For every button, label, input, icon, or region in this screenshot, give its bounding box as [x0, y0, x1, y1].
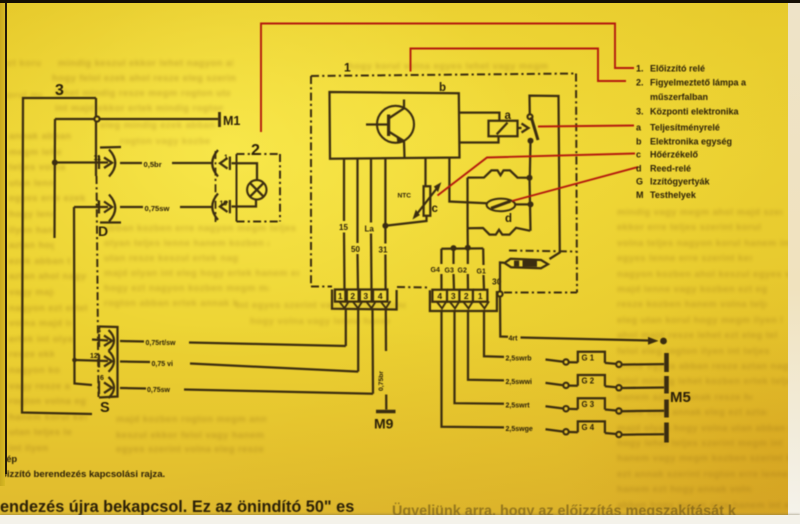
splice circle [616, 362, 621, 367]
wire [546, 406, 564, 408]
wire 0,75sw (pin 6) [120, 387, 146, 390]
svg-text:15: 15 [339, 223, 348, 232]
junction dot [52, 160, 58, 166]
svg-text:D: D [98, 223, 108, 239]
ground bar M5 (4) [664, 423, 669, 443]
wire capsule to bus [515, 203, 530, 205]
svg-text:M9: M9 [374, 416, 394, 432]
svg-text:2: 2 [464, 291, 469, 301]
electronics unit box b [330, 92, 460, 159]
svg-text:4: 4 [97, 328, 101, 335]
terminal strip boxes 1 2 3 4 [335, 290, 346, 302]
svg-text:Reed-relé: Reed-relé [650, 164, 691, 174]
wire pin 10 to lamp [232, 199, 257, 206]
splice circle [563, 383, 568, 388]
wire [546, 383, 564, 385]
red leader line to legend 1 [261, 24, 634, 133]
svg-text:G3: G3 [445, 268, 454, 275]
reed contact blade [491, 201, 511, 208]
svg-text:G4: G4 [431, 267, 440, 274]
svg-text:2: 2 [350, 291, 355, 301]
lamp pin 10 tick [229, 200, 231, 213]
svg-text:1: 1 [344, 61, 351, 75]
glow feed wire G4 [440, 249, 442, 264]
ground bar M5 (1) [664, 353, 669, 372]
wire 15 [343, 158, 345, 221]
wire to ground bar [605, 386, 616, 387]
splice circle [616, 408, 621, 413]
NTC wire from box b [424, 158, 426, 186]
glow plug circuit G1 [484, 310, 504, 357]
wire 0,75br to ground [385, 310, 387, 351]
NTC sensor body c [424, 186, 431, 216]
wire to pin 12 [75, 360, 109, 361]
wire La [370, 158, 372, 222]
reed contact capsule d [487, 199, 516, 212]
red leader line to legend d [512, 167, 638, 201]
pin 4 tick [98, 334, 100, 347]
red leader line to legend 2 [411, 49, 627, 82]
wire reed to glow distribution [466, 228, 468, 247]
wire pivot over to fuse bus [530, 96, 560, 259]
pin 6 tick [98, 381, 100, 394]
pin 3 tick [98, 201, 100, 214]
wire 0,75vi [120, 360, 150, 363]
wire 4rt with arrow to node e [521, 338, 653, 341]
strip bracket [332, 290, 397, 310]
pivot circle [528, 114, 533, 119]
svg-text:G 2: G 2 [582, 377, 595, 386]
lamp symbol [247, 180, 266, 199]
contact chevrons [340, 301, 350, 308]
crossing circle (no connection) [94, 116, 99, 121]
transistor base bar [387, 115, 390, 137]
junction dot oval [528, 201, 534, 207]
strip 2 bracket [430, 290, 497, 311]
pin 11 contact arc [109, 150, 115, 177]
terminal 30 circle [497, 291, 502, 296]
svg-text:0,75rt/sw: 0,75rt/sw [146, 340, 177, 347]
wire [546, 429, 564, 431]
svg-text:1: 1 [338, 291, 343, 301]
ground M9 [376, 410, 396, 414]
svg-text:a: a [505, 110, 512, 122]
glow plug G1 symbol [578, 352, 605, 363]
glow feed wire G3 [452, 248, 454, 264]
svg-text:a: a [636, 123, 642, 133]
glow plug G2 symbol [578, 375, 605, 386]
reed frame top (bimetal bump) [468, 170, 530, 177]
glow feed wire G1 [482, 248, 485, 265]
svg-text:0,75br: 0,75br [378, 371, 385, 391]
junction dot blade/bus [528, 138, 534, 144]
svg-text:2.: 2. [636, 78, 644, 88]
lamp pin 10 arrowhead [220, 201, 228, 212]
svg-text:Figyelmeztető lámpa a: Figyelmeztető lámpa a [650, 78, 747, 88]
svg-text:d: d [636, 164, 642, 174]
bus wire switch to reed frame [529, 141, 532, 178]
svg-text:G 1: G 1 [582, 353, 595, 362]
svg-text:b: b [439, 82, 446, 94]
svg-text:3: 3 [363, 291, 368, 301]
junction dots [451, 245, 457, 251]
svg-text:0,75sw: 0,75sw [145, 204, 170, 213]
svg-text:Központi elektronika: Központi elektronika [650, 107, 740, 117]
svg-text:c: c [432, 203, 439, 215]
svg-text:2,5swge: 2,5swge [506, 426, 533, 433]
bus wire pins 3-12-6 [74, 207, 92, 385]
wire box b to relay coil (bottom) [460, 136, 499, 143]
svg-text:50: 50 [351, 245, 360, 254]
splice circle [616, 432, 621, 437]
reed frame left [466, 178, 468, 229]
wire to pin 3 [74, 206, 108, 208]
glow feed wire G2 [467, 248, 469, 264]
reed frame right [530, 178, 531, 231]
wire 50 [356, 158, 358, 243]
wire 0,75rt/sw [120, 340, 144, 343]
svg-text:S: S [100, 400, 110, 416]
svg-text:G 3: G 3 [582, 400, 595, 409]
pin 3 arrowhead [104, 202, 112, 213]
svg-text:G 4: G 4 [582, 423, 595, 432]
wire to ground bar [605, 363, 616, 364]
glow plug G3 symbol [578, 398, 605, 409]
lamp pin 1 arrowhead [220, 158, 228, 169]
svg-text:műszerfalban: műszerfalban [650, 92, 708, 102]
glow plug circuit G3 [455, 310, 505, 404]
svg-text:3: 3 [96, 200, 100, 207]
svg-text:2: 2 [251, 142, 260, 159]
svg-text:b: b [636, 137, 642, 147]
svg-text:Izzítógyertyák: Izzítógyertyák [650, 177, 711, 187]
pin 3 contact arc [109, 195, 115, 222]
switch blade [531, 117, 538, 140]
svg-text:10: 10 [220, 201, 228, 208]
inner partition dash-dot [509, 251, 576, 252]
distribution wire [441, 247, 483, 250]
svg-text:6: 6 [100, 375, 104, 382]
fixed contact [518, 127, 522, 129]
pin 12 tick [98, 355, 100, 368]
pre-glow control unit boundary dash-dot box 1 [310, 76, 312, 287]
svg-text:M5: M5 [670, 389, 691, 406]
svg-text:2,5swrt: 2,5swrt [506, 402, 531, 409]
wire pin 1 to lamp [232, 163, 258, 180]
wire to ground bar [605, 433, 616, 434]
wire to ground bar [605, 410, 616, 411]
red leader line to legend c [438, 154, 636, 196]
svg-text:3.: 3. [636, 107, 644, 117]
splice circle [616, 385, 621, 390]
svg-text:1: 1 [478, 291, 483, 301]
svg-text:0,75sw: 0,75sw [147, 387, 171, 394]
connector D housing [100, 146, 121, 149]
fusible link [505, 259, 549, 268]
glow plug circuit G4 [442, 310, 505, 428]
svg-text:2,5swwi: 2,5swwi [506, 379, 533, 386]
svg-text:Testhelyek: Testhelyek [650, 190, 697, 200]
connector boundary dash-dot (box 3 right edge) [97, 176, 99, 397]
pin 12 contact arc [109, 351, 115, 372]
wire terminal 30 down [500, 297, 508, 337]
svg-text:31: 31 [379, 246, 388, 255]
splice circle [563, 429, 568, 434]
splice circle [563, 359, 568, 364]
wires below strip [345, 310, 347, 347]
wire 0,75sw [120, 206, 143, 208]
terminal M1 bar [218, 112, 221, 127]
svg-text:4rt: 4rt [509, 336, 519, 343]
svg-text:G1: G1 [477, 269, 486, 276]
wire from box b (jog) to reed contact [449, 158, 486, 203]
emitter arrowhead [397, 136, 405, 144]
lamp housing box [236, 154, 238, 222]
wire box b to relay coil (top) [459, 113, 499, 121]
svg-text:3: 3 [451, 291, 456, 301]
svg-text:1.: 1. [636, 64, 644, 74]
wire 0,5br [120, 162, 142, 164]
svg-text:11: 11 [94, 155, 102, 162]
svg-text:őizzító berendezés kapcsolási: őizzító berendezés kapcsolási rajza. [1, 469, 165, 480]
connector D pin 11 tick [98, 156, 100, 169]
svg-text:Teljesítményrelé: Teljesítményrelé [650, 123, 720, 133]
lamp pin 1 tick [229, 157, 231, 171]
transistor circle [377, 106, 414, 143]
emitter lead [389, 132, 405, 158]
svg-text:d: d [505, 213, 512, 225]
splice circle [563, 406, 568, 411]
lamp pin 10 contact arc [212, 194, 218, 220]
wire [546, 360, 564, 362]
svg-text:Hőérzékelő: Hőérzékelő [650, 150, 699, 160]
wire to pin 4 [92, 340, 108, 341]
base lead [366, 123, 387, 125]
terminal strip 2 boxes 4 3 2 1 [432, 290, 447, 302]
wire to pin 11 [55, 161, 108, 163]
connector S housing [99, 327, 118, 398]
svg-text:endezés újra bekapcsol. Ez az: endezés újra bekapcsol. Ez az önindító 5… [0, 498, 354, 516]
wire 30 to fuse [500, 263, 504, 292]
wire 31 [384, 158, 386, 243]
svg-text:NTC: NTC [398, 193, 412, 200]
warning lamp connector boundary dash-dot [215, 151, 217, 222]
pin 12 arrowhead [104, 356, 112, 367]
junction dot 31/NTC [382, 223, 388, 229]
NTC bottom wire to 31 [385, 216, 426, 226]
svg-text:La: La [365, 225, 375, 234]
node e [660, 338, 667, 345]
lamp pin 1 contact arc [212, 150, 218, 177]
ground bar M5 (2) [664, 376, 669, 394]
ground bar M5 (3) [664, 400, 669, 418]
red leader line to legend a [538, 126, 634, 127]
svg-text:Elektronika egység: Elektronika egység [650, 137, 732, 147]
svg-text:c: c [636, 150, 641, 160]
pin 4 contact arc [109, 330, 115, 351]
svg-text:12: 12 [90, 353, 98, 360]
bus wire inside box 3 [53, 119, 56, 238]
svg-text:4: 4 [378, 291, 383, 301]
svg-text:M1: M1 [223, 114, 240, 128]
pin 6 contact arc [109, 377, 115, 398]
svg-text:M: M [636, 190, 644, 200]
central electronics box 3 [22, 98, 96, 414]
reed frame bottom (bimetal bump) [468, 228, 531, 235]
svg-text:Előizzító relé: Előizzító relé [650, 64, 705, 74]
svg-text:4: 4 [437, 291, 442, 301]
contact chevrons [437, 301, 447, 308]
NTC arrow [417, 188, 438, 215]
relay coil a [489, 121, 518, 136]
junction pin 12 [72, 358, 77, 363]
junction dot top [527, 175, 533, 181]
wire to terminal M1 [55, 118, 218, 120]
glow plug circuit G2 [468, 310, 504, 381]
svg-text:G2: G2 [458, 268, 467, 275]
svg-text:1: 1 [224, 155, 228, 162]
svg-text:G: G [636, 177, 643, 187]
pin 6 arrowhead [104, 383, 112, 394]
collector lead [389, 100, 404, 119]
svg-text:0,75 vi: 0,75 vi [152, 361, 173, 368]
glow plug G4 symbol [578, 421, 605, 433]
pin 4 arrowhead [104, 336, 112, 347]
svg-text:2,5swrb: 2,5swrb [506, 356, 532, 363]
svg-text:0,5br: 0,5br [144, 160, 162, 169]
pin 11 arrowhead [104, 158, 112, 169]
coil diagonal [497, 123, 508, 135]
svg-text:3: 3 [55, 82, 64, 99]
